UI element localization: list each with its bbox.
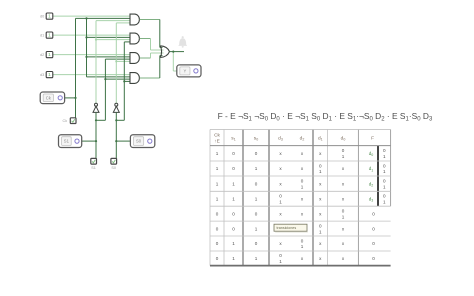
svg-text:x: x <box>342 196 345 201</box>
svg-text:d2: d2 <box>40 53 44 57</box>
svg-text:1: 1 <box>48 52 51 58</box>
svg-text:S1: S1 <box>64 139 70 144</box>
svg-text:0: 0 <box>383 163 386 168</box>
svg-text:1: 1 <box>383 169 386 174</box>
svg-text:x: x <box>279 241 282 246</box>
svg-text:1: 1 <box>48 14 51 20</box>
svg-text:0: 0 <box>216 211 219 216</box>
svg-text:0: 0 <box>372 241 375 246</box>
svg-text:d1: d1 <box>40 33 44 37</box>
svg-text:0: 0 <box>301 179 304 184</box>
svg-text:x: x <box>319 151 322 156</box>
svg-text:x: x <box>342 226 345 231</box>
svg-text:0: 0 <box>216 226 219 231</box>
svg-text:1: 1 <box>255 256 258 261</box>
svg-text:1: 1 <box>216 196 219 201</box>
svg-text:x: x <box>319 211 322 216</box>
svg-text:d3: d3 <box>278 136 283 142</box>
svg-text:F - E ¬S1 ¬S0 D0 · E ¬S1 S0 D1: F - E ¬S1 ¬S0 D0 · E ¬S1 S0 D1 · E S1·¬S… <box>218 111 433 122</box>
svg-text:0: 0 <box>232 151 235 156</box>
svg-text:S1: S1 <box>91 166 96 170</box>
svg-text:1: 1 <box>319 169 322 174</box>
svg-text:x: x <box>319 241 322 246</box>
svg-text:x: x <box>279 181 282 186</box>
svg-text:0: 0 <box>279 253 282 258</box>
svg-text:0: 0 <box>232 211 235 216</box>
svg-text:0: 0 <box>216 256 219 261</box>
svg-text:0: 0 <box>216 241 219 246</box>
svg-text:0: 0 <box>383 148 386 153</box>
svg-text:d0: d0 <box>369 151 374 157</box>
svg-text:1: 1 <box>301 244 304 249</box>
svg-text:Ck: Ck <box>46 95 52 100</box>
svg-text:1: 1 <box>279 259 282 264</box>
svg-text:1: 1 <box>255 196 258 201</box>
svg-text:0: 0 <box>319 163 322 168</box>
svg-text:d1: d1 <box>369 166 374 172</box>
svg-text:0: 0 <box>279 194 282 199</box>
svg-text:x: x <box>279 211 282 216</box>
svg-text:F: F <box>371 136 374 142</box>
svg-text:S0: S0 <box>136 139 142 144</box>
svg-text:x: x <box>279 151 282 156</box>
svg-text:1: 1 <box>232 181 235 186</box>
svg-text:d1: d1 <box>318 136 323 142</box>
svg-text:Y: Y <box>183 69 186 74</box>
svg-text:1: 1 <box>232 196 235 201</box>
svg-text:0: 0 <box>232 166 235 171</box>
svg-text:0: 0 <box>232 226 235 231</box>
svg-text:0: 0 <box>372 226 375 231</box>
svg-text:d3: d3 <box>40 73 44 77</box>
svg-text:0: 0 <box>342 148 345 153</box>
svg-text:1: 1 <box>383 184 386 189</box>
svg-text:↑E: ↑E <box>214 139 220 145</box>
svg-text:x: x <box>319 196 322 201</box>
svg-text:0: 0 <box>383 179 386 184</box>
svg-text:0: 0 <box>255 181 258 186</box>
svg-text:x: x <box>301 196 304 201</box>
svg-text:1: 1 <box>48 33 51 39</box>
svg-text:1: 1 <box>48 72 51 78</box>
svg-text:x: x <box>301 151 304 156</box>
svg-text:x: x <box>342 181 345 186</box>
svg-text:0: 0 <box>372 211 375 216</box>
svg-text:transiciones: transiciones <box>277 226 297 230</box>
svg-text:d0: d0 <box>40 14 44 18</box>
svg-text:x: x <box>342 166 345 171</box>
svg-text:0: 0 <box>342 209 345 214</box>
svg-text:Ck: Ck <box>214 132 220 138</box>
svg-text:1: 1 <box>232 241 235 246</box>
svg-text:1: 1 <box>255 226 258 231</box>
svg-text:0: 0 <box>301 238 304 243</box>
svg-text:1: 1 <box>383 199 386 204</box>
svg-text:0: 0 <box>372 256 375 261</box>
svg-text:1: 1 <box>232 256 235 261</box>
svg-text:s1: s1 <box>231 137 235 142</box>
svg-text:1: 1 <box>342 214 345 219</box>
svg-text:d0: d0 <box>341 136 346 142</box>
svg-text:S0: S0 <box>111 166 116 170</box>
svg-text:0: 0 <box>255 211 258 216</box>
svg-text:d2: d2 <box>369 181 374 187</box>
svg-text:x: x <box>342 256 345 261</box>
svg-text:x: x <box>319 256 322 261</box>
svg-text:x: x <box>342 241 345 246</box>
svg-text:x: x <box>301 256 304 261</box>
svg-text:x: x <box>319 181 322 186</box>
svg-text:1: 1 <box>216 181 219 186</box>
svg-text:s0: s0 <box>254 137 258 142</box>
svg-text:x: x <box>279 166 282 171</box>
svg-text:0: 0 <box>383 194 386 199</box>
svg-text:0: 0 <box>255 151 258 156</box>
svg-text:x: x <box>301 211 304 216</box>
svg-text:d3: d3 <box>369 196 374 202</box>
svg-text:1: 1 <box>216 151 219 156</box>
svg-text:x: x <box>301 166 304 171</box>
svg-text:1: 1 <box>301 184 304 189</box>
svg-text:1: 1 <box>255 166 258 171</box>
svg-text:1: 1 <box>342 154 345 159</box>
svg-text:0: 0 <box>255 241 258 246</box>
svg-text:Ck: Ck <box>63 119 68 123</box>
svg-text:1: 1 <box>383 154 386 159</box>
svg-text:1: 1 <box>319 229 322 234</box>
svg-text:d2: d2 <box>300 136 305 142</box>
svg-text:1: 1 <box>216 166 219 171</box>
svg-text:0: 0 <box>319 223 322 228</box>
svg-text:1: 1 <box>279 199 282 204</box>
